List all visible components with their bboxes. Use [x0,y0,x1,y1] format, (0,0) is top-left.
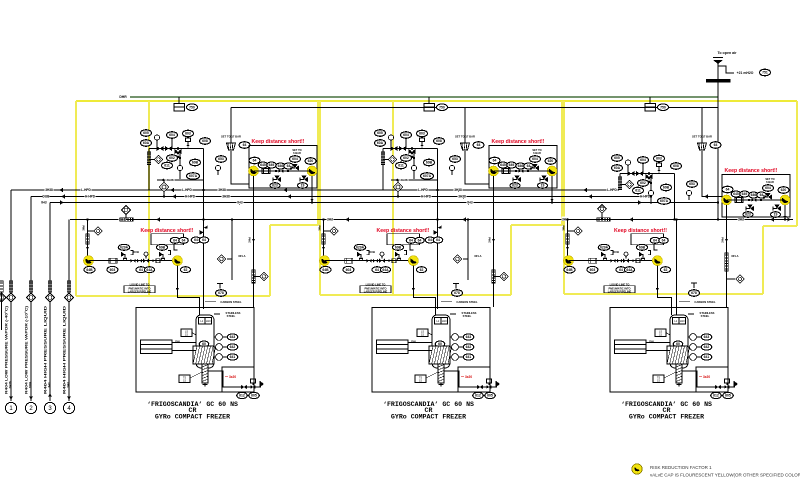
unit 1 solenoid valve [186,138,191,142]
unit 2 instrument bubble 608 [424,159,435,166]
unit 3 relief tag bubble [710,142,721,149]
svg-text:To open air: To open air [717,51,737,55]
unit 2 valve B [399,146,406,151]
svg-text:H-HPD: H-HPD [185,195,196,199]
unit 3 hot gas valve yellow cap left [722,195,732,205]
svg-text:612: 612 [239,394,245,398]
unit 1 keep box drain valve right [304,177,308,182]
pipe label 3Hd on line 4 [737,217,744,221]
yellow boundary unit 2 step vertical [510,225,512,295]
svg-text:653: 653 [689,182,695,186]
svg-text:DUB: DUB [369,250,375,254]
unit 1 liquid tag 60x [107,266,118,273]
unit 3 bracket line [654,244,657,250]
svg-text:645: 645 [260,163,266,167]
svg-text:Keep distance short!!: Keep distance short!! [376,228,429,234]
unit 1 keep box pipe [254,170,313,172]
unit 1 hotgas label NFLA [238,254,246,258]
svg-text:649: 649 [742,192,748,196]
unit 3 instrument bubble 606 [612,165,623,172]
unit 2 cluster right drop pipe to vessel [437,149,439,310]
unit 3 liquid feed arrow [566,247,569,250]
svg-text:3H38: 3H38 [166,178,174,182]
unit 3 liquid valve yellow cap right [652,256,662,266]
unit 2 instrument bubble 603 [417,130,428,137]
unit 3 four-way mixing cross [646,174,653,179]
unit 3 keep box drain valve left [750,206,754,211]
svg-text:H10: H10 [206,319,211,323]
svg-text:64: 64 [139,268,143,272]
svg-text:64B: 64B [566,268,573,272]
svg-text:750: 750 [439,105,445,109]
unit 3 cluster diamond tag [620,184,626,186]
unit 3 pilot bracket a [611,251,614,255]
pipe label L-HPD on line 1 [417,187,428,191]
svg-text:6 BAR: 6 BAR [766,180,774,184]
unit 1 sensor circle 3 [215,165,220,170]
svg-text:607A: 607A [189,174,198,178]
svg-text:DHL: DHL [411,340,417,344]
svg-text:64: 64 [418,239,422,243]
svg-text:62: 62 [184,268,188,272]
unit 2 sensor circle 3 [449,165,454,170]
inline sleeve on line 4 left [120,218,133,221]
unit 2 keep box strainer [502,169,510,174]
riser sleeve 1 [9,281,12,292]
svg-text:64B: 64B [86,268,93,272]
unit 2 bypass arrow [395,178,398,181]
svg-text:IHd: IHd [237,201,242,205]
unit 3 cluster mid drop pipe [650,176,652,197]
unit 1 keep box tag pair c [276,163,286,169]
svg-text:64: 64 [493,159,497,163]
riser flow arrow 3 [48,393,52,396]
svg-text:678: 678 [454,291,460,295]
unit 1 drop pipe bubbles [191,237,201,243]
unit 2 sensor circle 2 [411,165,416,170]
unit 2 vessel bubble [435,341,445,347]
unit 1 liquid line pipe [89,260,178,262]
unit 2 drop pipe bubbles [425,237,435,243]
svg-text:3H38: 3H38 [222,195,230,199]
unit 1 bracket line [174,244,177,250]
unit 2 four-way mixing cross [409,149,416,154]
instrument bubble 751 [760,69,771,76]
svg-text:607A: 607A [660,199,669,203]
unit 3 instrument bubble 608 [661,184,672,191]
flow arrow on line 4 [770,217,774,222]
unit 1 relief outlet pipe [231,151,249,184]
svg-text:19: 19 [774,213,778,217]
svg-text:649: 649 [509,163,515,167]
svg-text:Keep distance short!!: Keep distance short!! [491,139,544,145]
legend yellow valve cap symbol [632,464,642,474]
svg-text:64: 64 [182,239,186,243]
unit 3 bracket bubbles pair [650,237,660,243]
svg-text:Keep distance short!!: Keep distance short!! [724,168,777,174]
unit 1 keep box relief small [295,165,299,170]
riser flow arrow 4 [67,397,71,400]
unit 2 keep box pipe [494,170,553,172]
unit 3 instrument bubble 603 [654,155,665,162]
svg-text:64: 64 [173,239,177,243]
unit 2 vessel level boxes [435,318,442,325]
flow arrow on line 2 [460,194,464,199]
flow arrow line 4 right end [788,218,791,222]
unit 1 keep box right leg [311,176,313,203]
svg-text:611: 611 [164,164,170,168]
unit 2 keep box tag bubble e [545,158,556,165]
vent line to atmosphere [717,60,719,220]
unit 2 pilot bubble 629A [354,244,366,250]
svg-text:DHL: DHL [649,340,655,344]
unit 1 liquid feed diamond [88,230,95,232]
unit 1 level instrument circles [216,334,223,341]
unit 2 liquid pilot valve a [360,254,362,259]
riser pipe to node 4 [68,220,70,402]
unit 2 cluster header pipe [383,148,438,150]
svg-text:605: 605 [143,131,149,135]
svg-text:629A: 629A [356,246,365,250]
svg-text:678: 678 [691,291,697,295]
svg-text:IHd: IHd [41,201,46,205]
unit 1 vessel feed drop pipe [177,266,199,315]
unit 1 keep box valve [278,169,283,173]
svg-text:604: 604 [169,133,175,137]
unit 1 liquid valve yellow cap right [172,256,182,266]
svg-text:60A: 60A [143,141,150,145]
unit 3 level instrument circles [690,334,697,341]
pipe label H-HPD on line 2 [420,194,431,198]
svg-text:60B: 60B [395,246,402,250]
svg-text:3x20: 3x20 [465,375,472,379]
unit 3 keep box pipe [727,199,786,201]
unit 3 freezer notch line [696,367,728,392]
unit 2 liquid tag pair [372,267,382,273]
unit 3 pilot label DUB [613,250,620,254]
unit 1 instrument bubble 605 [141,130,152,137]
flow arrow on line 4 [629,217,633,222]
unit 3 keep box strainer [735,198,743,203]
unit 1 keep box tag bubble e [305,158,316,165]
unit 3 vessel hatched band [667,346,690,364]
unit 1 cluster diamond tag [149,159,155,161]
svg-text:602: 602 [169,156,175,160]
svg-text:64: 64 [202,238,206,242]
unit 3 liquid feed drop [567,220,569,256]
svg-text:603: 603 [590,268,596,272]
pipe label H-HPD on line 2 [84,194,95,198]
unit 1 valve A [157,146,164,151]
unit 3 vessel suction pipe [676,220,678,316]
unit 1 liquid pilot valve a [124,254,126,259]
unit 2 bypass pipe [391,179,438,181]
pipe label DUB on line 2 [42,194,49,198]
svg-text:NFLA: NFLA [475,254,482,258]
svg-text:3Hd: 3Hd [248,237,252,243]
svg-text:612: 612 [713,394,719,398]
unit 1 cluster sleeve [147,152,150,165]
yellow boundary unit 3 step vertical [762,226,764,294]
unit 2 liquid feed drop [323,220,325,256]
unit 2 sensor circle [388,135,393,140]
pipe label IHd on line 3 [236,200,243,204]
svg-text:L-HPD: L-HPD [418,188,428,192]
unit 1 instrument bubble 60A [200,138,211,145]
unit 1 keep box drain tag right [298,183,308,189]
unit 1 liquid feed drop [87,220,89,256]
unit 2 liquid feed arrow [322,247,325,250]
yellow boundary unit 1 bottom edge [76,295,270,297]
svg-text:DHR: DHR [119,95,127,99]
flow arrow on line 3 [239,200,243,205]
unit 1 drain actuated valve [250,385,255,389]
unit 2 HS tag bubble [437,104,448,111]
unit 3 HS tag bubble [658,104,669,111]
flow arrow on line 2 [704,194,708,199]
unit 1 level switch box upper [181,329,192,337]
unit 3 vessel bubble [673,341,683,347]
svg-text:604: 604 [640,158,646,162]
riser class-break diamond 3 [45,293,54,302]
unit 1 liquid valve yellow cap left [84,256,94,266]
unit 1 evaporator coil [141,340,173,354]
inline diamond tag on line 4 unit 3 [601,213,603,220]
svg-text:3Hd: 3Hd [81,225,85,231]
svg-text:678: 678 [218,291,224,295]
unit 1 vessel neck hatched [202,364,208,383]
pipe main line 3Hd suction [70,219,793,221]
yellow boundary unit 1 right edge upper [317,101,319,225]
riser flow arrow 2 [29,397,33,400]
unit 2 drain valve [477,385,483,389]
unit 2 vessel feed drop pipe [413,266,435,315]
unit 1 bracket enclosure [151,234,184,245]
svg-text:R404 HIGH PRESSURE LIQUID: R404 HIGH PRESSURE LIQUID [63,305,67,394]
unit 1 level tag bubbles [227,334,238,340]
node 1 off-page connector [5,402,16,413]
pipe label 3H38 on line 1 [217,187,226,191]
unit 1 liquid line fitting [156,259,160,263]
svg-text:604: 604 [765,186,771,190]
unit 3 cluster left drop pipe [619,174,621,189]
svg-text:3x20: 3x20 [703,375,710,379]
svg-text:653: 653 [452,157,458,161]
svg-text:DHL: DHL [175,340,181,344]
svg-text:605: 605 [487,394,493,398]
unit 1 instrument bubble 603 [183,130,194,137]
unit 2 thermowell bubble [452,290,463,297]
flow arrow on line 1 [170,188,174,193]
svg-text:DUB: DUB [28,381,32,388]
pipe label H-HPD on line 2 [184,194,195,198]
unit 3 relief outlet pipe [702,151,722,197]
svg-text:64: 64 [653,239,657,243]
unit 2 cluster sleeve [381,152,384,165]
riser class-break diamond 1 [6,293,15,302]
unit 3 freezer enclosure [610,308,728,393]
unit 2 hot gas valve yellow cap left [489,166,499,176]
unit 3 liquid tag 60x [587,266,598,273]
unit 3 liquid line fitting [636,259,640,263]
svg-text:643: 643 [230,335,236,339]
pipe label L-HPD on line 1 [181,187,192,191]
unit 1 hotgas riser diamond [227,258,232,260]
svg-text:60B: 60B [639,246,646,250]
yellow boundary unit 2 step [511,224,562,226]
yellow boundary unit 2 inner left edge [392,101,394,295]
unit 3 drain pipe [682,371,735,387]
svg-text:642: 642 [466,345,472,349]
svg-text:608: 608 [202,139,208,143]
unit 1 keep box tag bubble a [249,157,260,164]
unit 1 liquid feed sleeve [86,234,89,244]
svg-text:605: 605 [614,156,620,160]
edge clipped riser line [1,292,3,330]
unit 1 keep box left leg to freezer [253,176,255,307]
yellow boundary unit 3 bottom edge [564,293,763,295]
unit 1 HS hand-switch box [174,104,185,112]
unit 1 instrument bubble 608 [190,159,201,166]
svg-text:646: 646 [518,164,524,168]
svg-text:6 BAR: 6 BAR [293,151,301,155]
riser pipe to node 2 [30,197,32,402]
unit 3 valve A [628,171,635,176]
svg-text:19: 19 [301,184,305,188]
svg-text:608: 608 [436,139,442,143]
svg-text:62: 62 [664,268,668,272]
unit 3 cluster header pipe [620,173,675,175]
unit 3 cluster mid connect to line 2 [650,197,652,205]
unit 1 bypass label [166,177,175,181]
svg-text:642: 642 [704,345,710,349]
unit 2 cluster mid drop pipe [413,151,415,179]
svg-text:629A: 629A [600,246,609,250]
unit 1 bracket bubbles pair [170,237,180,243]
node 2 off-page connector [25,402,36,413]
unit 2 instrument bubble 604 [401,132,412,139]
unit 1 pilot label DUB [133,250,140,254]
unit 1 instrument bubble 607A [187,173,200,180]
svg-text:64: 64 [253,159,257,163]
svg-text:IHd: IHd [467,201,472,205]
unit 2 liquid tag right [417,267,427,273]
svg-text:3Hd: 3Hd [738,218,744,222]
svg-text:642: 642 [230,345,236,349]
pipe label H-HPD on line 2 [639,194,650,198]
unit 1 liquid tag pair [136,267,146,273]
unit 3 keep box drain valve right [777,206,781,211]
svg-text:641: 641 [466,355,472,359]
svg-text:62: 62 [420,268,424,272]
unit 1 special diamond valve [163,180,165,197]
unit 2 hotgas riser [467,220,469,281]
unit 3 pilot bubble 60B [637,244,648,250]
svg-text:3H38: 3H38 [45,188,53,192]
unit 3 liquid line valve pair [610,259,615,263]
unit 2 level tag bubbles [463,334,474,340]
unit 3 vessel neck hatched [676,364,682,383]
svg-text:DUB: DUB [613,250,619,254]
unit 3 sensor circle 3 [686,190,691,195]
unit 1 liquid pilot valve b [162,254,164,259]
riser sleeve 2 [29,281,32,292]
flow arrow on line 2 [61,194,65,199]
unit 1 cluster left drop pipe [148,149,150,191]
unit 3 keep box drain tag right [771,212,781,218]
unit 3 evaporator coil [615,340,647,354]
flow arrow on line 2 [172,194,176,199]
svg-text:643: 643 [704,335,710,339]
flow arrow on line 4 [156,217,160,222]
pipe label 3H38 on line 2 [221,194,230,198]
svg-text:DUB: DUB [133,250,139,254]
node 4 off-page connector [63,402,74,413]
svg-text:611: 611 [635,189,641,193]
flow arrow on line 1 [455,188,459,193]
svg-text:603: 603 [656,157,662,161]
unit 3 instrument bubble 602 [638,180,649,187]
unit 2 keep box drain valve right [544,177,548,182]
unit 3 keep box tag bubble d [763,185,774,192]
unit 2 level switch box lower [415,375,426,383]
unit 1 cluster header pipe [149,148,204,150]
unit 2 level instrument circles [452,334,459,341]
unit 1 drain valve [241,385,247,389]
node 3 off-page connector [44,402,55,413]
svg-text:620: 620 [308,159,314,163]
svg-text:64: 64 [714,143,718,147]
svg-text:Keep distance short!!: Keep distance short!! [140,228,193,234]
svg-text:H-HPD: H-HPD [85,195,96,199]
unit 3 keep box left leg to freezer [726,205,728,307]
svg-text:612: 612 [475,394,481,398]
svg-text:L-HPD: L-HPD [81,188,91,192]
svg-text:H10: H10 [442,319,447,323]
svg-text:GYRo COMPACT FREZER: GYRo COMPACT FREZER [391,414,466,421]
unit 2 instrument bubble 653 [450,156,461,163]
unit 1 vessel level boxes [199,318,206,325]
svg-text:64: 64 [194,238,198,242]
unit 2 pilot label DUB [369,250,376,254]
yellow boundary unit 1 inner left edge [148,101,150,296]
unit 3 bracket enclosure [631,234,664,245]
unit 2 keep box drain tag left [510,183,520,189]
unit 3 drain actuated valve [724,385,729,389]
unit 1 liquid globe valve [143,259,149,263]
unit 2 liquid line valve pair [366,259,371,263]
unit 2 instrument bubble 602 [401,155,412,162]
unit 2 bypass label [400,177,409,181]
pipe label 3H38 on line 1 [453,187,462,191]
unit 1 relief funnel [227,143,236,150]
pipe main line H-HPD [31,196,650,198]
svg-text:605: 605 [725,394,731,398]
svg-text:605: 605 [377,131,383,135]
svg-text:H-HPD: H-HPD [421,195,432,199]
unit 2 liquid line pipe [325,260,414,262]
unit 3 valve B [636,171,643,176]
pipe label 3Hd on line 4 [118,217,125,221]
unit 3 drain valve [715,385,721,389]
unit 3 keep box drain tag left [743,212,753,218]
svg-text:64A: 64A [626,268,633,272]
svg-text:64: 64 [662,239,666,243]
unit 1 instrument bubble 606 [141,140,152,147]
unit 3 cluster left connect to line 1 [619,188,621,190]
svg-text:L-HPD: L-HPD [182,188,192,192]
unit 2 keep box drain valve left [517,177,521,182]
